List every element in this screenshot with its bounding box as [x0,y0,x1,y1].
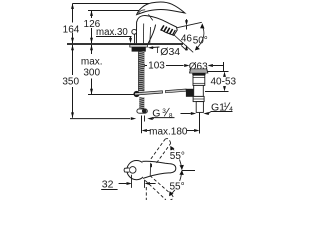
bottom reference line to hose end [70,118,130,120]
lower leg of 50 deg angle [174,35,194,53]
svg-text:164: 164 [63,24,80,35]
spout with adjustable aerator [161,24,178,36]
max.300 bottom reference line [88,94,135,96]
plan view: pop-up knob circle [129,167,136,174]
threaded hose column lower [139,97,144,109]
svg-text:300: 300 [83,67,100,78]
drain middle body [194,85,204,96]
label Ø34 (shank diameter) with leader [148,46,153,49]
dimension 164 (vertical, spout tip above deck) [72,4,74,23]
dimension 46 (spout outlet height) [186,19,188,21]
axis reference line [182,170,195,172]
drain lower ring nut [193,96,204,101]
spout axis extension line (upper leg of 50 deg) [172,22,202,29]
rod clevis block at drain [186,89,194,97]
svg-text:max.180: max.180 [149,127,188,138]
dimension 103 (horizontal, faucet to drain) [139,64,144,67]
dimension max.300 (vertical, rod length below deck) [91,45,93,54]
svg-text:50°: 50° [193,36,208,47]
faucet base column [135,22,137,44]
shank washer below deck [130,45,148,47]
dimension 40-53 (drain flange adjustment) with reference lines [207,71,229,73]
tailpipe left pointer arrow [181,113,191,115]
svg-text:8: 8 [169,112,173,119]
deck / mounting surface line [67,43,183,45]
50 deg arc with arrowheads [198,25,204,47]
drain upper body [193,75,205,85]
dimension 350 (vertical, hose length below deck) [72,45,74,75]
dashed lever position -55 deg (down) [145,176,173,200]
mounting nut (dark) [132,47,146,52]
svg-text:350: 350 [62,77,79,88]
svg-text:55°: 55° [170,181,185,192]
G3/8 hose end nut [137,109,147,113]
svg-text:40-53: 40-53 [211,76,237,87]
faucet lever blade (side view) [137,2,185,15]
horizontal pop-up actuating rod (slopes up to drain) [135,91,163,95]
lever neck joint line [148,14,152,20]
G3/8 nut right arrow [147,117,152,120]
pop-up rod knob [132,29,137,34]
dimension 126 (vertical, lever height above deck) [91,11,93,19]
svg-text:103: 103 [148,61,165,72]
dimension Ø63 (drain flange diameter) [184,64,189,67]
dashed lever position +55 deg (up) [151,139,171,163]
top reference line (spout tip height datum) [73,3,151,5]
lever datum reference line [88,10,141,12]
cartridge dome [137,16,170,24]
swing arc lower with arrowheads [170,171,182,196]
plan view: lever handle body [142,161,176,178]
drain flange (Ø63) [190,69,208,73]
plan view: pop-up tab [124,168,129,172]
plan view: lever back circle [127,161,146,180]
aerator knurl ribs [161,25,164,30]
threaded hose column upper [139,52,145,92]
rod clamp ball [134,91,140,97]
drain tailpipe G1 1/4 [196,102,203,113]
svg-text:max.: max. [81,56,103,67]
svg-text:Ø34: Ø34 [160,46,180,58]
dimension max.180 (horizontal rod adjustment) [141,116,143,134]
plug dark band [192,73,205,75]
svg-text:32: 32 [102,178,114,190]
swing arc upper with arrowheads [171,147,182,170]
hose thread hatching [139,51,144,54]
svg-text:55°: 55° [170,151,185,162]
